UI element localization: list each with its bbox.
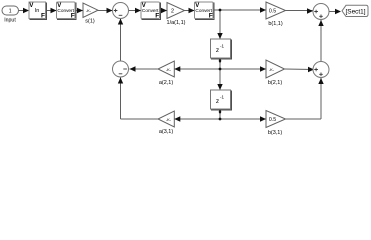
svg-text:s(1): s(1) (85, 19, 95, 25)
svg-text:V: V (195, 3, 199, 9)
svg-text:F: F (41, 13, 45, 20)
svg-text:V: V (57, 3, 61, 9)
svg-text:2: 2 (171, 9, 174, 15)
svg-text:z: z (216, 47, 219, 54)
svg-text:b(3,1): b(3,1) (268, 130, 283, 136)
svg-text:-1: -1 (220, 95, 224, 100)
svg-text:b(1,1): b(1,1) (268, 21, 283, 27)
svg-text:V: V (29, 3, 33, 9)
svg-text:1/a(1,1): 1/a(1,1) (167, 20, 186, 26)
svg-text:-K-: -K- (166, 67, 172, 72)
svg-text:1: 1 (9, 9, 12, 15)
svg-text:a(3,1): a(3,1) (159, 129, 174, 135)
svg-text:V: V (142, 3, 146, 9)
svg-text:-K-: -K- (269, 67, 275, 72)
svg-text:b(2,1): b(2,1) (268, 80, 283, 86)
svg-text:F: F (155, 13, 159, 20)
svg-text:a(2,1): a(2,1) (159, 80, 174, 86)
svg-text:In: In (35, 8, 40, 14)
svg-text:z: z (216, 98, 219, 105)
svg-text:F: F (209, 13, 213, 20)
svg-text:[Sect1]: [Sect1] (346, 9, 366, 16)
svg-text:-K-: -K- (86, 8, 92, 13)
svg-text:0.5: 0.5 (269, 117, 276, 123)
svg-text:-K-: -K- (166, 117, 172, 122)
svg-text:F: F (71, 13, 75, 20)
svg-text:Input: Input (4, 18, 16, 24)
svg-text:-1: -1 (220, 44, 224, 49)
svg-text:0.5: 0.5 (269, 9, 276, 15)
